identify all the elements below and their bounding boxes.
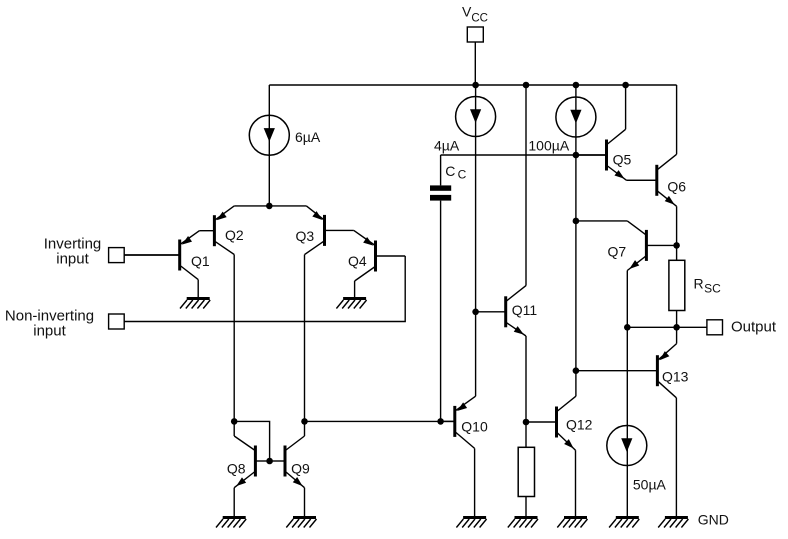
current source 50uA bbox=[607, 426, 647, 466]
ground under Q9 bbox=[286, 518, 316, 528]
transistor Q10 bbox=[441, 396, 476, 448]
terminal output bbox=[707, 320, 723, 335]
node 100uA-midrail bbox=[573, 152, 580, 159]
ground under Q1 bbox=[180, 299, 210, 309]
current source 6uA bbox=[249, 115, 289, 155]
svg-text:Output: Output bbox=[731, 319, 777, 336]
wire Q8 emitter to ground bbox=[233, 488, 235, 517]
svg-text:Q12: Q12 bbox=[566, 417, 593, 433]
svg-text:6µA: 6µA bbox=[295, 129, 321, 145]
transistor Q7 bbox=[627, 221, 676, 271]
ground under Q4 bbox=[336, 299, 366, 309]
svg-text:Q5: Q5 bbox=[613, 152, 632, 168]
node Q9 collector bbox=[301, 418, 308, 425]
wire mirror diode link bbox=[234, 421, 269, 461]
terminal non-inverting input bbox=[109, 314, 125, 329]
node rail-Q5 bbox=[622, 82, 629, 89]
svg-text:RSC: RSC bbox=[694, 275, 722, 295]
node Q12 collector - Q13 base bbox=[573, 367, 580, 374]
wire 100uA branch bbox=[575, 85, 577, 396]
wire cap top bbox=[440, 155, 442, 185]
wire VCC stem bbox=[474, 42, 476, 85]
transistor Q11 bbox=[476, 286, 526, 336]
node mirror bases bbox=[266, 458, 273, 465]
wire mid rail bbox=[441, 154, 606, 156]
wire R1 to ground bbox=[525, 497, 527, 517]
transistor Q8 bbox=[234, 436, 269, 488]
node output-50uA bbox=[624, 324, 631, 331]
svg-text:input: input bbox=[56, 250, 89, 267]
transistor Q2 bbox=[199, 206, 234, 255]
svg-text:Q13: Q13 bbox=[662, 368, 689, 384]
wire Q1 collector to ground bbox=[197, 280, 199, 298]
wire Q11 emitter down bbox=[525, 336, 527, 447]
wire first-stage output bbox=[305, 420, 454, 422]
wire Q7 emitter down bbox=[626, 271, 628, 517]
wire Q5 emitter to Q6 base bbox=[627, 179, 656, 181]
svg-text:Q6: Q6 bbox=[667, 178, 686, 194]
wire Q12 emitter to ground bbox=[575, 450, 577, 516]
wire Q2 collector down bbox=[233, 255, 235, 437]
wire top rail bbox=[269, 84, 676, 86]
wire Q5 collector up bbox=[625, 85, 627, 129]
svg-text:CC: CC bbox=[445, 163, 466, 182]
transistor Q5 bbox=[576, 129, 627, 180]
transistor Q3 bbox=[305, 206, 354, 255]
resistor R1 bbox=[518, 447, 534, 496]
svg-text:Q2: Q2 bbox=[225, 227, 244, 243]
svg-text:input: input bbox=[33, 322, 66, 339]
transistor Q4 bbox=[354, 230, 405, 281]
wire Q3 collector down bbox=[304, 255, 306, 436]
node Q8 collector bbox=[231, 418, 238, 425]
svg-text:VCC: VCC bbox=[462, 3, 488, 24]
node Q7 base bbox=[673, 242, 680, 249]
transistor Q12 bbox=[526, 396, 576, 450]
wire 4uA branch bbox=[475, 85, 477, 396]
wire Q9 emitter to ground bbox=[304, 488, 306, 517]
svg-text:Q3: Q3 bbox=[296, 228, 315, 244]
ground under 50uA bbox=[609, 518, 639, 528]
svg-text:Q11: Q11 bbox=[512, 302, 538, 318]
svg-text:4µA: 4µA bbox=[434, 138, 460, 154]
svg-text:Q1: Q1 bbox=[191, 253, 210, 269]
current source 100uA bbox=[556, 97, 596, 137]
ground under Q12 bbox=[557, 518, 587, 528]
transistor Q1 bbox=[124, 231, 199, 280]
wire Q11 collector branch bbox=[525, 85, 527, 286]
node output-RSC bbox=[673, 324, 680, 331]
wire Q10 to ground bbox=[474, 448, 476, 516]
terminal inverting input bbox=[109, 248, 125, 263]
wire output bbox=[627, 326, 707, 328]
svg-text:100µA: 100µA bbox=[528, 138, 569, 154]
wire emitter rail bbox=[234, 205, 306, 207]
ground under R1 bbox=[508, 518, 538, 528]
current source 4uA bbox=[456, 97, 496, 137]
svg-text:Q10: Q10 bbox=[461, 419, 488, 435]
node compensation tap bbox=[437, 418, 444, 425]
wire cap bottom bbox=[440, 201, 442, 422]
ground under Q13 bbox=[658, 518, 688, 528]
terminal VCC bbox=[467, 27, 483, 42]
wire 6uA branch bbox=[268, 85, 270, 206]
node Q12 base tap bbox=[523, 419, 530, 426]
node 100uA-Q7 bbox=[573, 218, 580, 225]
resistor RSC bbox=[669, 260, 685, 310]
capacitor CC bbox=[430, 185, 451, 200]
svg-text:Q4: Q4 bbox=[348, 253, 367, 269]
transistor Q13 bbox=[576, 344, 677, 398]
node Q11 base bbox=[472, 309, 479, 316]
svg-text:GND: GND bbox=[698, 511, 729, 527]
wire non-inverting input bbox=[124, 256, 405, 322]
svg-text:Q8: Q8 bbox=[227, 460, 246, 476]
svg-text:Q7: Q7 bbox=[608, 244, 627, 260]
wire Q7 collector link bbox=[576, 220, 627, 222]
wire inverting input bbox=[124, 254, 179, 256]
svg-text:50µA: 50µA bbox=[633, 476, 667, 492]
node rail-100uA bbox=[573, 82, 580, 89]
node tail bbox=[266, 203, 273, 210]
svg-text:Q9: Q9 bbox=[291, 460, 310, 476]
wire Q13 collector to ground bbox=[675, 398, 677, 517]
transistor Q6 bbox=[627, 154, 677, 206]
wire RSC to output node bbox=[676, 311, 678, 344]
transistor Q9 bbox=[270, 436, 305, 488]
ground under Q10 bbox=[456, 518, 486, 528]
wire Q4 collector to ground bbox=[354, 281, 356, 298]
node rail-Q11 bbox=[523, 82, 530, 89]
wire Q6 collector up bbox=[676, 85, 678, 154]
wire Q6 emitter down bbox=[676, 206, 678, 260]
node rail-4uA bbox=[472, 82, 479, 89]
ground under Q8 bbox=[216, 518, 246, 528]
